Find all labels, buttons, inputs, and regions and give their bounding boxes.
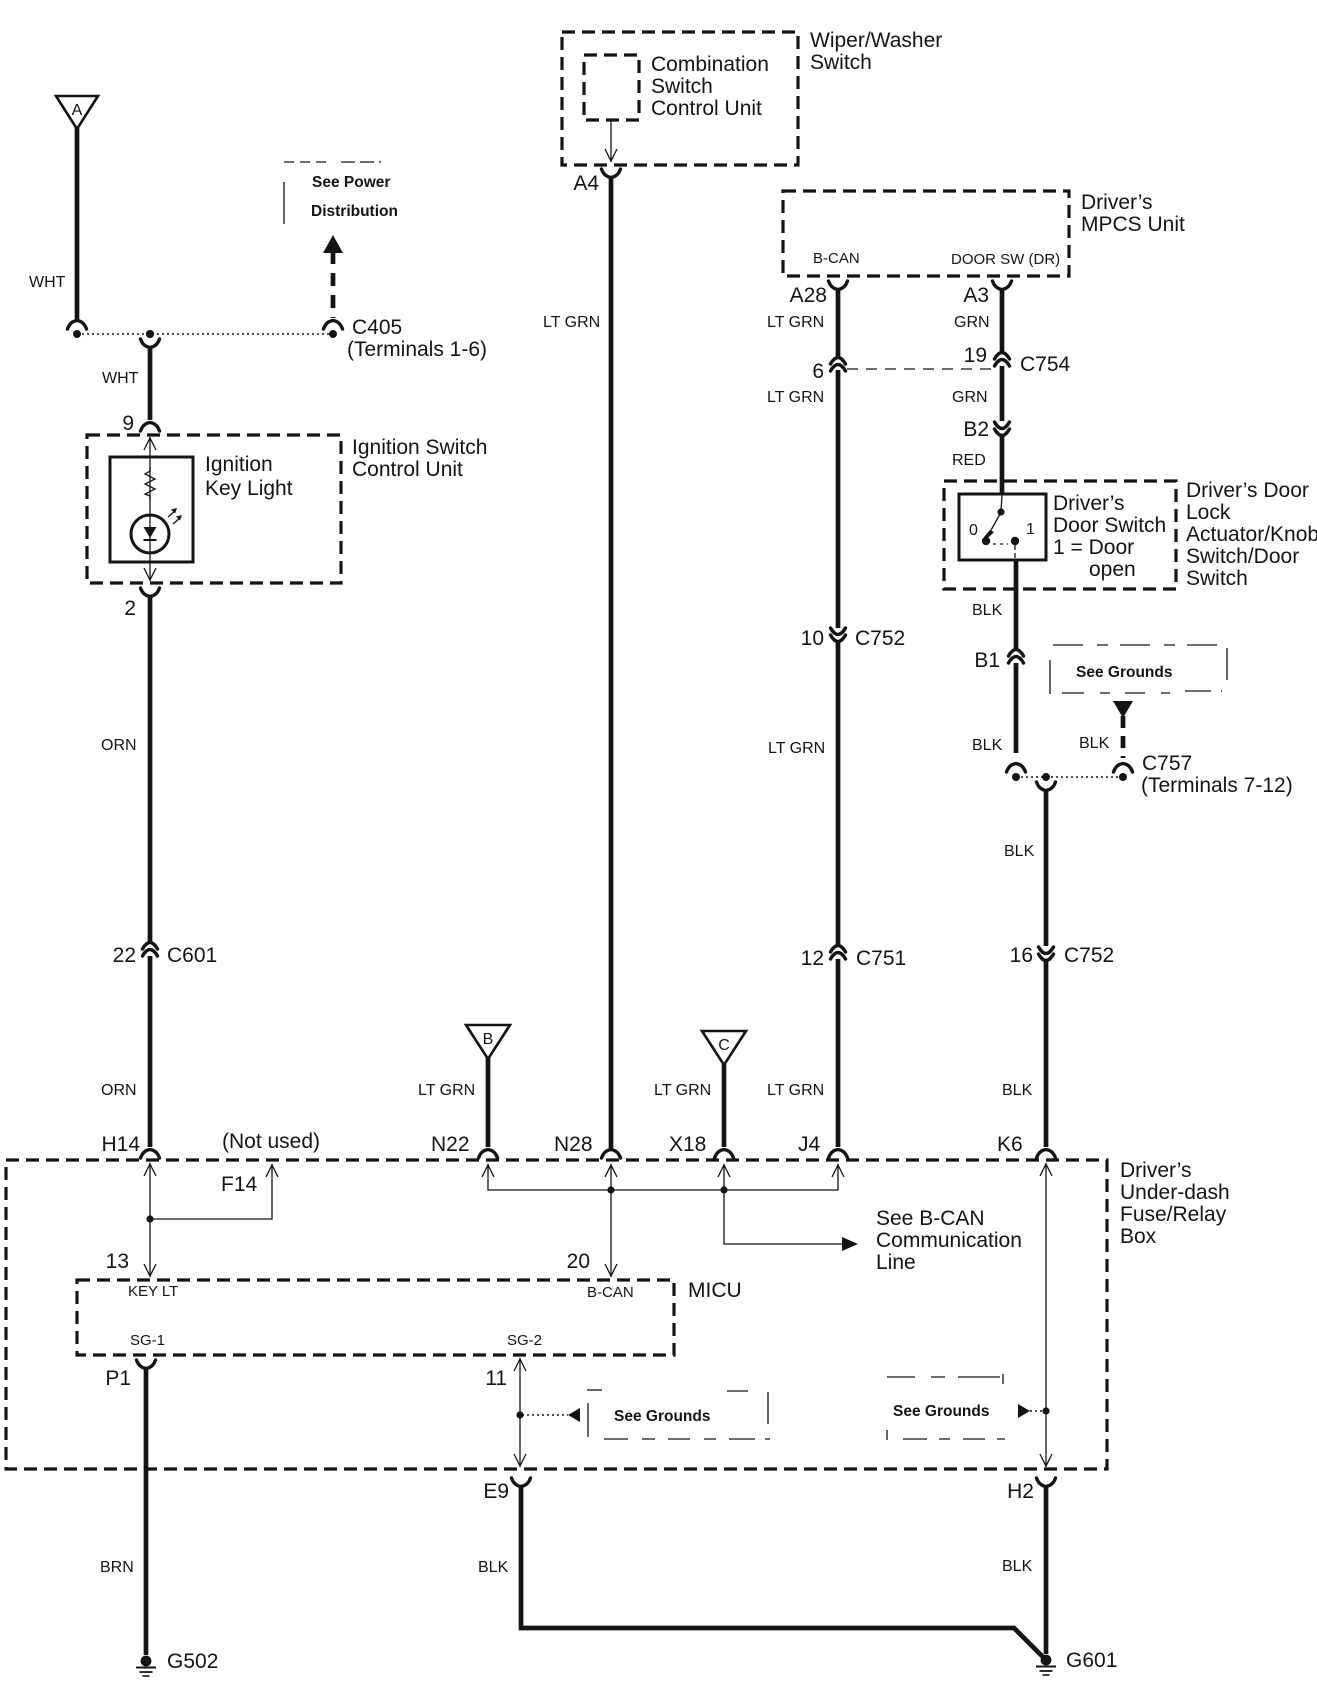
driver's under-dash fuse/relay box [6, 1160, 1107, 1469]
svg-text:See Power: See Power [312, 174, 390, 191]
svg-text:MICU: MICU [688, 1279, 742, 1302]
svg-text:Lock: Lock [1186, 501, 1231, 524]
terminal of BLK wire at C757 junction [1007, 764, 1026, 782]
See Grounds note box (upper) [1050, 645, 1229, 694]
svg-text:Driver’s: Driver’s [1120, 1159, 1192, 1182]
svg-text:See Grounds: See Grounds [1076, 664, 1172, 681]
terminal N28 [554, 1133, 621, 1158]
combination switch control unit inner box [584, 55, 639, 120]
resistor [145, 467, 155, 500]
svg-text:BLK: BLK [1079, 735, 1110, 752]
ignition key light inner box [110, 457, 193, 562]
internal line K6 to H2 [1040, 1163, 1052, 1467]
internal arrow to A4 [605, 120, 617, 162]
svg-text:B-CAN: B-CAN [587, 1284, 634, 1301]
svg-text:C757: C757 [1142, 752, 1192, 775]
internal line SG-2 to 11 [514, 1358, 526, 1467]
connector B2 [963, 418, 1009, 441]
wire BRN [144, 1368, 149, 1655]
svg-text:RED: RED [952, 452, 986, 469]
svg-text:A4: A4 [573, 172, 599, 195]
svg-text:(Terminals 7-12): (Terminals 7-12) [1141, 774, 1293, 797]
svg-text:11: 11 [485, 1367, 507, 1390]
internal branch to F14 [150, 1164, 278, 1219]
connector 12 C751 [801, 946, 907, 971]
svg-text:LT GRN: LT GRN [654, 1082, 711, 1099]
terminal 9 [122, 412, 159, 435]
svg-text:J4: J4 [798, 1133, 821, 1156]
svg-text:K6: K6 [997, 1133, 1023, 1156]
svg-text:P1: P1 [105, 1367, 131, 1390]
svg-text:2: 2 [124, 597, 136, 620]
wire ORN lower [148, 956, 153, 1147]
internal bus line N22 N28 X18 J4 [482, 1164, 844, 1194]
svg-text:Box: Box [1120, 1225, 1157, 1248]
node junction dot [146, 330, 154, 338]
terminal H2 [1007, 1478, 1055, 1503]
svg-text:G502: G502 [167, 1650, 218, 1673]
arrow from see grounds to C757 [1113, 701, 1133, 781]
svg-text:SG-1: SG-1 [130, 1332, 165, 1349]
svg-text:Ignition: Ignition [205, 453, 273, 476]
svg-text:BLK: BLK [1004, 843, 1035, 860]
wire BLK below door switch [1014, 560, 1019, 651]
wire ORN [148, 596, 153, 942]
svg-text:0: 0 [969, 522, 978, 539]
terminal down from junction [141, 330, 160, 348]
node junction dot [1042, 773, 1050, 781]
svg-text:open: open [1089, 558, 1136, 581]
svg-text:16: 16 [1010, 944, 1033, 967]
terminal E9 [483, 1478, 530, 1503]
door switch inner box [959, 494, 1046, 560]
svg-text:BLK: BLK [478, 1559, 509, 1576]
svg-text:C601: C601 [167, 944, 217, 967]
svg-text:Switch: Switch [1186, 567, 1248, 590]
svg-text:X18: X18 [669, 1133, 706, 1156]
wire junction line C405 [77, 333, 333, 335]
svg-text:Switch: Switch [810, 51, 872, 74]
svg-text:BLK: BLK [1002, 1082, 1033, 1099]
terminal N22 [431, 1133, 498, 1158]
wire LT GRN (A4 to N28) [609, 177, 614, 1148]
internal line N28 to 20 [567, 1190, 617, 1277]
svg-text:9: 9 [122, 412, 134, 435]
terminal X18 [669, 1133, 734, 1158]
svg-text:ORN: ORN [101, 1082, 137, 1099]
connector 16 C752 [1010, 944, 1115, 967]
svg-text:MPCS Unit: MPCS Unit [1081, 213, 1185, 236]
power source triangle A [56, 96, 98, 129]
internal branch X18 to B-CAN note [724, 1190, 858, 1251]
wire BLK below B1 [1014, 663, 1019, 753]
svg-text:N28: N28 [554, 1133, 593, 1156]
wire RED [1000, 434, 1005, 495]
wire BLK to 16 [1044, 790, 1049, 946]
svg-text:Door Switch: Door Switch [1053, 514, 1166, 537]
See Grounds note box (lower left) [587, 1390, 770, 1439]
svg-text:BLK: BLK [1002, 1558, 1033, 1575]
svg-text:H14: H14 [101, 1133, 140, 1156]
svg-text:Fuse/Relay: Fuse/Relay [1120, 1203, 1227, 1226]
svg-text:GRN: GRN [954, 314, 990, 331]
LED symbol [144, 527, 157, 540]
svg-text:BRN: BRN [100, 1559, 134, 1576]
svg-text:See B-CAN: See B-CAN [876, 1207, 985, 1230]
light emission arrows [168, 508, 182, 524]
svg-text:1 = Door: 1 = Door [1053, 536, 1134, 559]
ignition switch control unit box [87, 435, 341, 583]
wire BLK to K6 [1044, 959, 1049, 1147]
svg-text:Switch: Switch [651, 75, 713, 98]
arrow from 11 line to see grounds [522, 1408, 580, 1422]
svg-text:6: 6 [812, 360, 824, 383]
connector 19 C754 [964, 344, 1071, 376]
ground G601 [1036, 1649, 1117, 1675]
svg-text:Driver’s: Driver’s [1081, 191, 1153, 214]
junction line C757 [1016, 776, 1123, 778]
connector 6 [812, 358, 845, 384]
svg-text:C754: C754 [1020, 353, 1071, 376]
svg-text:DOOR SW (DR): DOOR SW (DR) [951, 251, 1060, 268]
svg-text:A3: A3 [963, 284, 989, 307]
svg-text:BLK: BLK [972, 737, 1003, 754]
svg-text:KEY LT: KEY LT [128, 1283, 178, 1300]
svg-text:ORN: ORN [101, 737, 137, 754]
svg-text:C752: C752 [855, 627, 905, 650]
See Power Distribution note box [284, 162, 398, 224]
svg-text:N22: N22 [431, 1133, 470, 1156]
terminal J4 [798, 1133, 848, 1158]
svg-text:LT GRN: LT GRN [768, 740, 825, 757]
svg-text:B1: B1 [974, 649, 1000, 672]
See Grounds note box (lower right) [887, 1374, 1005, 1440]
svg-text:A28: A28 [790, 284, 827, 307]
ground G502 [136, 1650, 218, 1676]
svg-text:C752: C752 [1064, 944, 1114, 967]
svg-text:C405: C405 [352, 316, 402, 339]
svg-text:22: 22 [113, 944, 136, 967]
connector 10 C752 on J4 wire [801, 627, 906, 650]
svg-text:Ignition Switch: Ignition Switch [352, 436, 487, 459]
svg-text:Control Unit: Control Unit [352, 458, 463, 481]
svg-text:(Not used): (Not used) [222, 1130, 320, 1153]
svg-text:Wiper/Washer: Wiper/Washer [810, 29, 942, 52]
wiper/washer switch box [562, 32, 798, 165]
svg-text:Communication: Communication [876, 1229, 1022, 1252]
svg-text:E9: E9 [483, 1480, 509, 1503]
svg-text:Combination: Combination [651, 53, 769, 76]
terminal K6 [997, 1133, 1056, 1158]
svg-text:B: B [483, 1031, 494, 1048]
svg-text:LT GRN: LT GRN [418, 1082, 475, 1099]
connector link dashed line 6 to 19 [847, 368, 993, 370]
internal link line [144, 437, 156, 581]
svg-text:Under-dash: Under-dash [1120, 1181, 1230, 1204]
svg-text:SG-2: SG-2 [507, 1332, 542, 1349]
terminal down from C757 junction [1037, 782, 1056, 791]
svg-text:Driver’s: Driver’s [1053, 492, 1125, 515]
terminal of wire A at C405 junction [68, 321, 87, 339]
triangle C [702, 1031, 746, 1065]
connector B1 [974, 649, 1023, 672]
wire GRN [1000, 366, 1005, 421]
svg-text:C751: C751 [856, 947, 906, 970]
svg-text:Control Unit: Control Unit [651, 97, 762, 120]
svg-text:WHT: WHT [102, 370, 139, 387]
svg-text:H2: H2 [1007, 1480, 1034, 1503]
svg-text:BLK: BLK [972, 602, 1003, 619]
svg-text:A: A [72, 102, 83, 119]
terminal A3 [963, 281, 1011, 307]
wire LT GRN from B [486, 1058, 491, 1147]
wire BLK H2 to G601 [1044, 1486, 1049, 1654]
wire LT GRN 6 to 10 [836, 370, 841, 628]
svg-text:LT GRN: LT GRN [543, 314, 600, 331]
svg-text:WHT: WHT [29, 274, 66, 291]
terminal A28 [790, 281, 848, 307]
svg-text:LT GRN: LT GRN [767, 314, 824, 331]
svg-text:20: 20 [567, 1250, 590, 1273]
svg-text:LT GRN: LT GRN [767, 1082, 824, 1099]
svg-text:12: 12 [801, 947, 824, 970]
internal line H14 to 13 [144, 1163, 156, 1277]
triangle B [466, 1025, 510, 1059]
svg-text:Driver’s Door: Driver’s Door [1186, 479, 1309, 502]
driver's door lock actuator box [944, 481, 1176, 589]
svg-text:C: C [718, 1037, 730, 1054]
wire LT GRN from A28 [836, 289, 841, 358]
svg-text:10: 10 [801, 627, 824, 650]
terminal A4 [573, 169, 620, 195]
svg-text:19: 19 [964, 344, 987, 367]
svg-text:Distribution: Distribution [311, 203, 398, 220]
wire LT GRN 10 to 12 [836, 640, 841, 946]
svg-text:(Terminals 1-6): (Terminals 1-6) [347, 338, 487, 361]
svg-text:Switch/Door: Switch/Door [1186, 545, 1299, 568]
svg-text:LT GRN: LT GRN [767, 389, 824, 406]
svg-text:1: 1 [1026, 521, 1035, 538]
svg-text:Actuator/Knob: Actuator/Knob [1186, 523, 1317, 546]
arrow to power distribution [323, 235, 343, 338]
MICU box [77, 1280, 674, 1355]
wire BLK E9 to G601 [521, 1486, 1043, 1657]
svg-text:B-CAN: B-CAN [813, 250, 860, 267]
terminal 2 [124, 588, 159, 620]
svg-text:G601: G601 [1066, 1649, 1117, 1672]
arrow from see grounds to K6 line [1018, 1404, 1044, 1418]
lamp bulb [131, 515, 169, 553]
svg-text:See Grounds: See Grounds [893, 1403, 989, 1420]
wire WHT from A [75, 128, 80, 320]
switch symbol: feed line, pivot, lever, contacts [982, 495, 1019, 559]
svg-text:F14: F14 [221, 1173, 258, 1196]
svg-text:13: 13 [106, 1250, 129, 1273]
wire GRN from A3 [1000, 289, 1005, 352]
svg-text:B2: B2 [963, 418, 989, 441]
wire LT GRN 12 to J4 [836, 959, 841, 1147]
terminal H14 [101, 1133, 159, 1158]
svg-text:GRN: GRN [952, 389, 988, 406]
svg-text:Key Light: Key Light [205, 477, 293, 500]
wire WHT to terminal 9 [148, 347, 153, 420]
driver's MPCS unit box [783, 191, 1069, 276]
connector 22 C601 [113, 943, 218, 968]
terminal P1 [105, 1360, 155, 1390]
svg-text:See Grounds: See Grounds [614, 1408, 710, 1425]
wire LT GRN from C [722, 1064, 727, 1147]
svg-text:Line: Line [876, 1251, 916, 1274]
